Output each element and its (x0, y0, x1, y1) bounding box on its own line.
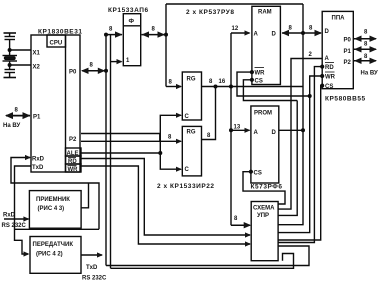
wire CPU TxD to transmitter (15, 166, 32, 254)
svg-text:P2: P2 (69, 137, 77, 143)
crystal Q (9, 50, 11, 56)
wire PPA A (278, 59, 322, 210)
pin CS PROM (250, 170, 253, 173)
bus АП6 right (142, 34, 165, 36)
wire bottom long 2 (111, 254, 294, 269)
svg-text:К573РФ6: К573РФ6 (251, 184, 283, 191)
svg-text:8: 8 (364, 54, 368, 60)
svg-text:C: C (185, 167, 190, 173)
svg-text:12: 12 (232, 26, 239, 32)
svg-text:D: D (272, 130, 277, 136)
wire АП6 pin1 (110, 35, 112, 269)
RAM D2 2xКР537РУ8 (252, 6, 281, 84)
bus to СХЕМА УПР (231, 224, 250, 226)
svg-text:X1: X1 (33, 51, 41, 57)
wire to PROM A (231, 129, 250, 131)
svg-text:Ф: Ф (129, 18, 135, 25)
svg-text:A: A (254, 130, 259, 136)
wire RG1 output 16-bus (202, 86, 304, 88)
pin WR RAM (251, 71, 254, 74)
wire X1 (10, 49, 31, 51)
svg-text:P0: P0 (69, 70, 77, 76)
svg-text:На ВУ: На ВУ (361, 71, 378, 77)
svg-text:ПЕРЕДАТЧИК: ПЕРЕДАТЧИК (33, 242, 74, 248)
pin box RD (66, 156, 82, 164)
transmitter ПЕРЕДАТЧИК (30, 237, 81, 274)
svg-text:P1: P1 (344, 49, 352, 55)
svg-text:ТxD: ТxD (86, 265, 98, 271)
CPU U1 КР1830ВЕ31 (31, 35, 80, 172)
svg-text:УПР: УПР (257, 213, 269, 219)
svg-text:TxD: TxD (32, 165, 44, 171)
wire WR to ctrl (81, 166, 250, 244)
svg-text:1: 1 (126, 58, 130, 64)
svg-text:2: 2 (309, 52, 313, 58)
wire RAM WR (237, 72, 310, 96)
svg-text:ППА: ППА (332, 16, 346, 22)
svg-text:P2: P2 (344, 60, 352, 66)
svg-text:CS: CS (255, 79, 263, 85)
svg-text:8: 8 (90, 63, 94, 69)
wire X2 (10, 64, 31, 66)
svg-text:D: D (272, 32, 277, 38)
pin box ALE (66, 148, 82, 156)
svg-text:CPU: CPU (50, 41, 63, 47)
svg-text:D: D (325, 29, 330, 35)
svg-text:ПРИЕМНИК: ПРИЕМНИК (36, 197, 70, 203)
buffer D1 КР1533АП6 (123, 14, 140, 66)
capacitor C2 (9, 65, 11, 70)
svg-text:СХЕМА: СХЕМА (253, 206, 275, 212)
bus PPA P2 (354, 60, 376, 62)
svg-text:8: 8 (207, 133, 211, 139)
pin CS PPA (321, 84, 324, 87)
wire to RAM A (231, 32, 250, 34)
svg-text:КР580ВВ55: КР580ВВ55 (325, 96, 366, 103)
receiver ПРИЕМНИК (29, 191, 81, 229)
svg-text:PROM: PROM (254, 111, 272, 117)
svg-text:КР1830ВЕ31: КР1830ВЕ31 (38, 29, 83, 36)
bus PPA P0 (354, 38, 376, 40)
wire RG1 input (166, 86, 181, 88)
wire PROM CS (243, 172, 285, 204)
wire bottom long 1 (106, 246, 309, 266)
wire ctrl out v3 (278, 101, 297, 216)
svg-text:RG: RG (187, 130, 196, 136)
crystal circuit (3, 33, 32, 78)
svg-text:WR: WR (68, 167, 79, 173)
wire PPA RD (278, 67, 322, 243)
wire P0 vertical (105, 35, 107, 266)
svg-text:A: A (325, 56, 330, 62)
pin box WR (66, 164, 82, 172)
svg-text:WR: WR (255, 71, 266, 77)
wire RxD RS232 input (4, 218, 29, 220)
svg-text:8: 8 (152, 27, 156, 33)
svg-text:X2: X2 (33, 65, 41, 71)
bus P1 to На ВУ (6, 115, 30, 117)
svg-text:C: C (185, 114, 190, 120)
svg-text:8: 8 (209, 79, 213, 85)
svg-text:8: 8 (364, 42, 368, 48)
svg-text:RxD: RxD (3, 213, 16, 219)
svg-text:RAM: RAM (258, 10, 272, 16)
wire RAM CS (243, 80, 297, 101)
capacitor C1 (9, 33, 11, 37)
svg-text:CS: CS (325, 84, 333, 90)
svg-text:2 х КР1533ИР22: 2 х КР1533ИР22 (157, 183, 215, 190)
control unit СХЕМА УПР (251, 202, 278, 261)
svg-text:RxD: RxD (32, 157, 45, 163)
svg-text:8: 8 (15, 108, 19, 114)
bus АП6 left (106, 34, 122, 36)
wire ALE to C feed (81, 152, 160, 154)
svg-text:8: 8 (169, 80, 173, 86)
wire C feed (160, 115, 181, 169)
wire P2 to RG2 (81, 140, 181, 142)
wire transmitter TxD out (81, 254, 102, 256)
PPA D4 КР580ВВ55 (322, 11, 353, 88)
svg-text:RG: RG (187, 77, 196, 83)
svg-text:RS 232C: RS 232C (82, 276, 107, 282)
svg-text:8: 8 (309, 26, 313, 32)
svg-text:A: A (254, 32, 259, 38)
svg-text:P1: P1 (33, 115, 41, 121)
register RG1 КР1533ИР22 (182, 72, 201, 120)
bus PPA P1 (354, 48, 376, 50)
svg-text:8: 8 (168, 135, 172, 141)
PROM D3 К573РФ6 (251, 106, 279, 183)
svg-text:WR: WR (325, 75, 336, 81)
bus P0 CPU to node (82, 70, 105, 72)
wire RD to ctrl (81, 159, 250, 236)
svg-text:16: 16 (219, 79, 226, 85)
svg-text:8: 8 (234, 216, 238, 222)
wire receiver to CPU RxD (81, 183, 88, 208)
svg-text:CS: CS (254, 171, 262, 177)
address bus vertical (230, 33, 232, 225)
wire PPA CS (278, 86, 322, 240)
svg-text:8: 8 (289, 26, 293, 32)
svg-text:P0: P0 (344, 38, 352, 44)
node X1 (8, 49, 11, 52)
svg-text:(РИС 4 2): (РИС 4 2) (36, 252, 63, 258)
wire PPA WR (278, 76, 322, 233)
svg-text:8: 8 (364, 30, 368, 36)
register RG2 КР1533ИР22 (182, 126, 201, 175)
pin WR PPA (321, 75, 324, 78)
wire top bus left drop (165, 4, 167, 87)
wire RG2 output (202, 87, 216, 140)
svg-text:8: 8 (109, 27, 113, 33)
svg-text:На ВУ: На ВУ (3, 123, 20, 129)
data bus RAM-PPA (282, 32, 321, 34)
svg-text:13: 13 (234, 125, 241, 131)
wire PROM D (279, 129, 303, 131)
pin CS RAM (251, 78, 254, 81)
svg-text:2 х КР537РУ8: 2 х КР537РУ8 (186, 9, 235, 16)
node X2 (8, 64, 11, 67)
svg-text:(РИС 4 3): (РИС 4 3) (38, 206, 65, 212)
svg-text:RD: RD (325, 65, 334, 71)
pin RD PPA (321, 65, 324, 68)
svg-text:КР1533АП6: КР1533АП6 (108, 7, 149, 14)
wire top data bus (166, 3, 303, 5)
